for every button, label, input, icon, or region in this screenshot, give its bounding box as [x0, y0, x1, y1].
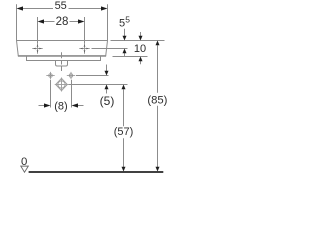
- svg-text:(57): (57): [114, 126, 134, 138]
- centerline: [61, 52, 63, 71]
- dimension 28: [38, 17, 85, 43]
- dimension (85): [157, 45, 159, 167]
- svg-text:(8): (8): [54, 101, 67, 113]
- dimension 55: [17, 4, 108, 40]
- tap hole left: [32, 43, 42, 53]
- extension line drain level: [69, 84, 128, 86]
- washbasin outline: [17, 41, 108, 67]
- dimension (8): [39, 80, 84, 108]
- supply connection left: [46, 72, 54, 79]
- extension line tap level: [92, 48, 128, 50]
- svg-text:10: 10: [134, 43, 146, 55]
- floor line: [29, 171, 164, 173]
- dimension (57): [123, 89, 125, 167]
- svg-text:(85): (85): [147, 94, 167, 106]
- extension line rim bottom level: [113, 56, 148, 58]
- extension line supply level: [76, 75, 109, 77]
- datum level symbol: [21, 166, 29, 172]
- tap hole right: [79, 43, 89, 53]
- svg-text:28: 28: [56, 16, 69, 28]
- supply connection right: [67, 72, 75, 79]
- drain box: [56, 61, 68, 67]
- svg-text:5: 5: [125, 14, 130, 24]
- drain connection diamond: [55, 78, 69, 92]
- extension line top level: [111, 40, 165, 42]
- dimension (5): [106, 65, 108, 94]
- svg-text:(5): (5): [100, 94, 115, 108]
- svg-text:0: 0: [21, 156, 27, 168]
- svg-text:55: 55: [55, 0, 67, 12]
